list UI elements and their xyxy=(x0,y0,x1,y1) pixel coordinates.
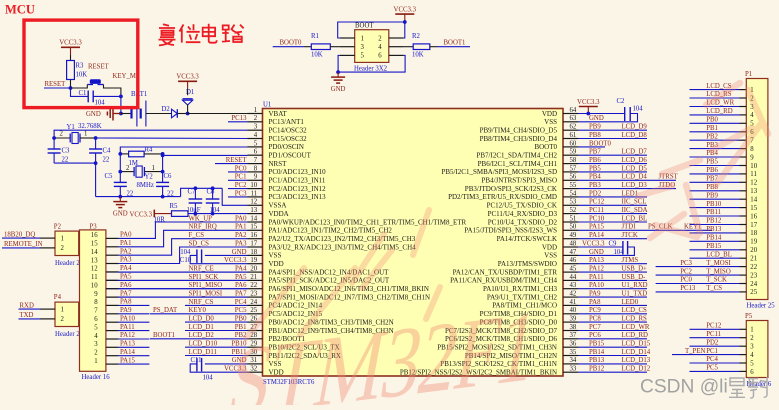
svg-text:22: 22 xyxy=(62,157,69,164)
wire pin 8 xyxy=(228,171,248,173)
svg-text:PC3/ADC123_IN13: PC3/ADC123_IN13 xyxy=(269,193,327,201)
svg-text:14: 14 xyxy=(750,197,757,204)
svg-text:PB7/I2C1_SDA/TIM4_CH2: PB7/I2C1_SDA/TIM4_CH2 xyxy=(476,152,557,160)
wire RXD xyxy=(19,308,41,310)
svg-text:VBAT: VBAT xyxy=(269,110,288,118)
svg-text:PA14: PA14 xyxy=(589,232,604,239)
svg-text:14: 14 xyxy=(91,249,98,256)
svg-text:LCD_CS: LCD_CS xyxy=(622,307,648,314)
wire PA10 end xyxy=(118,321,149,323)
svg-text:PD2: PD2 xyxy=(706,339,719,346)
wire pin 38 xyxy=(578,330,647,332)
wire pin 53 xyxy=(578,204,647,206)
svg-text:33: 33 xyxy=(570,366,577,373)
svg-text:PC11: PC11 xyxy=(706,331,721,338)
svg-text:RESET: RESET xyxy=(88,64,110,71)
svg-text:54: 54 xyxy=(570,190,577,197)
svg-text:PC2/ADC123_IN12: PC2/ADC123_IN12 xyxy=(269,185,327,193)
svg-text:PB2: PB2 xyxy=(706,133,718,140)
svg-text:PB11: PB11 xyxy=(706,209,721,216)
wire Y1 to pin 3 xyxy=(54,130,247,138)
crystal Y2 8MHz xyxy=(120,171,134,173)
svg-text:PA1/ADC123_IN1/TIM2_CH2/TIM5_C: PA1/ADC123_IN1/TIM2_CH2/TIM5_CH2 xyxy=(269,227,393,235)
svg-text:PB10: PB10 xyxy=(706,201,722,208)
svg-text:VDD: VDD xyxy=(542,110,557,118)
svg-text:PB5: PB5 xyxy=(589,165,601,172)
svg-text:BOOT0: BOOT0 xyxy=(534,143,557,151)
svg-text:T_CS: T_CS xyxy=(706,285,722,292)
svg-text:PD0/OSCIN: PD0/OSCIN xyxy=(269,143,304,151)
svg-text:24: 24 xyxy=(750,281,757,288)
svg-text:LED0: LED0 xyxy=(622,299,639,306)
wire PA0 stair xyxy=(118,222,247,238)
svg-text:Y2: Y2 xyxy=(145,174,154,181)
wire P1-1 xyxy=(690,89,740,91)
svg-text:10K: 10K xyxy=(412,51,424,58)
wire pin 9 xyxy=(228,179,248,181)
capacitor C4 xyxy=(95,138,97,149)
svg-text:PD2/TIM3_ETR/U5_RX/SDIO_CMD: PD2/TIM3_ETR/U5_RX/SDIO_CMD xyxy=(448,193,557,201)
svg-text:JTDI: JTDI xyxy=(622,224,637,231)
svg-text:RESET: RESET xyxy=(45,81,67,88)
svg-text:PC1/ADC123_IN11: PC1/ADC123_IN11 xyxy=(269,177,326,185)
wire PA7 to pin 23 xyxy=(118,296,247,298)
wire gnd to battery xyxy=(120,96,122,113)
svg-text:PC7: PC7 xyxy=(589,324,601,331)
svg-text:C2: C2 xyxy=(617,98,626,105)
svg-text:CSDN @li: CSDN @li xyxy=(640,377,728,398)
svg-text:PB5/I2C1_SMBA/SPI3_MOSI/I2S3_S: PB5/I2C1_SMBA/SPI3_MOSI/I2S3_SD xyxy=(441,168,557,176)
svg-text:VDD: VDD xyxy=(542,243,557,251)
wire pin 35 xyxy=(578,355,647,357)
wire P1-13 xyxy=(690,190,740,192)
svg-text:104: 104 xyxy=(614,249,625,256)
svg-text:LCD_D2: LCD_D2 xyxy=(189,332,215,339)
svg-text:9: 9 xyxy=(94,291,98,298)
svg-text:NRF_CE: NRF_CE xyxy=(189,266,214,273)
ground (battery) sideways xyxy=(113,113,121,115)
svg-text:LCD_D7: LCD_D7 xyxy=(622,149,648,156)
svg-text:104: 104 xyxy=(95,100,106,107)
svg-text:RXD: RXD xyxy=(20,302,34,309)
wire pin 30 xyxy=(185,355,248,357)
svg-text:SD_CS: SD_CS xyxy=(189,240,210,247)
svg-text:15: 15 xyxy=(250,224,257,231)
svg-text:PB4/JNTRST/SPI3_MISO: PB4/JNTRST/SPI3_MISO xyxy=(482,177,557,185)
svg-text:PA9: PA9 xyxy=(589,291,601,298)
svg-text:LCD_D0: LCD_D0 xyxy=(189,316,215,323)
svg-text:2: 2 xyxy=(750,335,754,342)
wire P1-21 xyxy=(690,257,740,259)
svg-text:14: 14 xyxy=(250,215,257,222)
capacitor C1 xyxy=(71,88,89,96)
svg-text:22: 22 xyxy=(103,157,110,164)
svg-text:C1: C1 xyxy=(79,90,87,97)
wire P1-12 xyxy=(690,181,740,183)
svg-text:PC8: PC8 xyxy=(589,316,601,323)
wire pin 55 xyxy=(578,188,676,190)
svg-text:11: 11 xyxy=(91,274,98,281)
svg-text:C11: C11 xyxy=(191,357,202,364)
svg-text:49: 49 xyxy=(570,232,577,239)
svg-text:64: 64 xyxy=(570,107,577,114)
wire pin 50 xyxy=(578,229,712,231)
svg-text:PA12: PA12 xyxy=(589,266,604,273)
svg-text:R1: R1 xyxy=(311,33,319,40)
svg-text:PC6: PC6 xyxy=(589,332,601,339)
svg-text:8MHz: 8MHz xyxy=(137,182,154,189)
svg-text:PB9/TIM4_CH4/SDIO_D5: PB9/TIM4_CH4/SDIO_D5 xyxy=(480,127,558,135)
svg-text:GND: GND xyxy=(232,249,247,256)
svg-text:53: 53 xyxy=(570,199,577,206)
svg-text:VCC3.3: VCC3.3 xyxy=(224,257,247,264)
wire pin 44 xyxy=(578,279,647,281)
capacitor C8 xyxy=(211,186,215,190)
svg-text:59: 59 xyxy=(570,149,577,156)
svg-text:VDDA: VDDA xyxy=(269,210,289,218)
capacitor C2 xyxy=(578,113,625,115)
svg-text:43: 43 xyxy=(570,282,577,289)
svg-text:7: 7 xyxy=(94,308,98,315)
capacitor C6 xyxy=(156,181,169,183)
wire pin 11 xyxy=(228,196,248,198)
wire pin 24 xyxy=(185,304,248,306)
wire P5-3 xyxy=(690,345,740,347)
svg-text:104: 104 xyxy=(180,249,191,256)
capacitor C9 xyxy=(578,246,623,248)
svg-text:PC1: PC1 xyxy=(235,174,247,181)
svg-text:T_PEN: T_PEN xyxy=(685,348,705,355)
wire Y1 to pin 4 xyxy=(96,137,248,140)
svg-text:41: 41 xyxy=(570,299,577,306)
wire P1-2 xyxy=(690,97,740,99)
wire PA9 end xyxy=(118,313,149,315)
svg-text:SPI1_MOSI: SPI1_MOSI xyxy=(189,291,223,298)
svg-text:3: 3 xyxy=(254,124,258,131)
svg-text:VCC3.3: VCC3.3 xyxy=(582,240,605,247)
svg-text:VCC3.3: VCC3.3 xyxy=(130,211,153,218)
wire pin 22 xyxy=(106,288,248,290)
svg-text:VSS: VSS xyxy=(544,252,557,260)
svg-text:GND: GND xyxy=(86,111,101,118)
wire PA8 end xyxy=(118,304,149,306)
node Y2 right top xyxy=(161,152,165,156)
svg-text:6: 6 xyxy=(94,316,98,323)
svg-text:18: 18 xyxy=(250,249,257,256)
watermark diagonal STM32F1 text xyxy=(206,288,558,410)
svg-text:VCC3.3: VCC3.3 xyxy=(59,40,82,47)
svg-text:PA11: PA11 xyxy=(589,274,604,281)
wire P1-25 xyxy=(656,291,740,293)
svg-text:37: 37 xyxy=(570,332,577,339)
wire P1-7 xyxy=(690,139,740,141)
svg-text:PC2: PC2 xyxy=(235,182,247,189)
svg-text:GND: GND xyxy=(331,86,346,93)
svg-text:13: 13 xyxy=(250,207,257,214)
wire P1-6 xyxy=(690,131,740,133)
wire pin 49 xyxy=(578,238,647,240)
wire pin 41 xyxy=(578,304,647,306)
svg-text:46: 46 xyxy=(570,257,577,264)
wire PA14 end xyxy=(118,355,149,357)
wire pin 58 xyxy=(578,163,647,165)
svg-text:C4: C4 xyxy=(103,148,112,155)
svg-text:20: 20 xyxy=(250,266,257,273)
svg-text:3: 3 xyxy=(361,44,365,51)
wire P1-8 xyxy=(690,148,740,150)
red label 复位电路 (reset circuit) drawn strokes xyxy=(159,24,244,46)
svg-text:PB9: PB9 xyxy=(706,192,718,199)
svg-text:1: 1 xyxy=(152,165,155,172)
capacitor C3 xyxy=(53,138,55,149)
wire pin 45 xyxy=(578,271,647,273)
svg-text:LCD_D8: LCD_D8 xyxy=(622,132,648,139)
svg-text:VSS: VSS xyxy=(269,252,282,260)
svg-text:PB6: PB6 xyxy=(589,157,601,164)
svg-text:5: 5 xyxy=(361,53,365,60)
svg-text:LCD_D12: LCD_D12 xyxy=(622,366,651,373)
wire P1-9 xyxy=(690,156,740,158)
svg-text:7: 7 xyxy=(254,157,258,164)
svg-text:USB_D-: USB_D- xyxy=(622,274,647,281)
svg-text:17: 17 xyxy=(250,240,257,247)
wire P1-10 xyxy=(690,165,740,167)
svg-text:PC12/U5_TX/SDIO_CK: PC12/U5_TX/SDIO_CK xyxy=(487,202,557,210)
svg-text:22: 22 xyxy=(250,282,257,289)
svg-text:PA2: PA2 xyxy=(235,232,247,239)
svg-text:PB13: PB13 xyxy=(589,357,605,364)
wire pin 37 xyxy=(578,338,647,340)
wire P1-18 xyxy=(690,232,740,234)
svg-text:15: 15 xyxy=(750,205,757,212)
wire P5-5 xyxy=(690,362,740,364)
svg-text:LCD_D9: LCD_D9 xyxy=(622,124,648,131)
svg-text:NRF_IRQ: NRF_IRQ xyxy=(189,224,217,231)
svg-text:PC12: PC12 xyxy=(706,323,722,330)
svg-text:D2: D2 xyxy=(162,106,171,113)
svg-text:10K: 10K xyxy=(311,51,323,58)
node Y1 right xyxy=(94,136,98,140)
svg-text:2: 2 xyxy=(254,115,258,122)
svg-text:U1_RXD: U1_RXD xyxy=(622,282,648,289)
wire PA1 stair xyxy=(118,230,247,247)
svg-text:4: 4 xyxy=(378,44,382,51)
svg-text:2: 2 xyxy=(61,316,65,323)
svg-text:8: 8 xyxy=(750,146,754,153)
svg-text:LCD_RS: LCD_RS xyxy=(622,316,648,323)
svg-text:2: 2 xyxy=(60,131,64,138)
svg-text:12: 12 xyxy=(750,180,757,187)
wire VSSA pin 12 xyxy=(222,188,247,205)
wire P1-15 xyxy=(690,207,740,209)
wire pin 59 xyxy=(578,154,647,156)
svg-text:22: 22 xyxy=(750,264,757,271)
svg-text:42: 42 xyxy=(570,291,577,298)
wire pin 25 xyxy=(150,313,248,315)
svg-text:PA15: PA15 xyxy=(589,224,604,231)
svg-text:LCD_D6: LCD_D6 xyxy=(622,157,648,164)
svg-text:PC14/OSC32: PC14/OSC32 xyxy=(269,127,308,135)
svg-text:PB13: PB13 xyxy=(706,226,722,233)
svg-text:19: 19 xyxy=(750,239,757,246)
svg-text:PB5: PB5 xyxy=(706,159,718,166)
svg-text:PB6/I2C1_SCL/TIM4_CH1: PB6/I2C1_SCL/TIM4_CH1 xyxy=(478,160,558,168)
svg-text:R3: R3 xyxy=(76,63,85,70)
node VBAT junction xyxy=(186,112,190,116)
svg-text:R2: R2 xyxy=(412,33,421,40)
svg-text:PA15: PA15 xyxy=(120,357,135,364)
svg-text:18B20_DQ: 18B20_DQ xyxy=(4,231,35,238)
svg-text:1: 1 xyxy=(750,327,753,334)
svg-text:Header 25: Header 25 xyxy=(747,303,776,310)
svg-text:6: 6 xyxy=(750,369,754,376)
svg-text:BOOT1: BOOT1 xyxy=(444,39,466,46)
node Y1 left xyxy=(52,136,56,140)
svg-text:PA1: PA1 xyxy=(120,240,131,247)
svg-text:13: 13 xyxy=(750,188,757,195)
wire P1-5 xyxy=(690,122,740,124)
capacitor C10 xyxy=(205,254,248,256)
svg-text:PB8: PB8 xyxy=(589,132,601,139)
svg-text:PC0: PC0 xyxy=(680,277,692,284)
svg-text:PC4: PC4 xyxy=(706,356,718,363)
svg-text:PB8/TIM4_CH3/SDIO_D4: PB8/TIM4_CH3/SDIO_D4 xyxy=(480,135,558,143)
svg-text:PA7: PA7 xyxy=(120,290,132,297)
svg-text:MCU: MCU xyxy=(5,3,35,17)
svg-text:C5: C5 xyxy=(105,173,114,180)
wire PA15 end xyxy=(118,363,149,365)
svg-text:PA8: PA8 xyxy=(589,299,601,306)
svg-text:1: 1 xyxy=(94,358,97,365)
svg-text:Header 2: Header 2 xyxy=(55,331,80,338)
node RESET junction xyxy=(69,86,73,90)
svg-text:PB9: PB9 xyxy=(589,124,601,131)
svg-text:2: 2 xyxy=(126,165,130,172)
svg-text:50: 50 xyxy=(570,224,577,231)
svg-text:PC4: PC4 xyxy=(235,299,247,306)
svg-text:PA3: PA3 xyxy=(120,257,132,264)
svg-text:PB4: PB4 xyxy=(589,174,601,181)
svg-text:58: 58 xyxy=(570,157,577,164)
wire pin 2 xyxy=(228,121,248,123)
ground (crystals) xyxy=(119,197,121,202)
svg-text:KEY0: KEY0 xyxy=(189,307,207,314)
svg-text:C6: C6 xyxy=(164,173,173,180)
wire C3/C4 gnd rail xyxy=(54,162,96,164)
svg-text:11: 11 xyxy=(750,171,757,178)
svg-text:PB0: PB0 xyxy=(235,316,247,323)
wire P1-24 xyxy=(656,283,740,285)
wire pin 20 xyxy=(106,271,248,273)
wire P5-6 xyxy=(690,370,740,372)
svg-text:VSSA: VSSA xyxy=(269,202,287,210)
svg-text:P1: P1 xyxy=(745,71,752,78)
svg-text:5: 5 xyxy=(94,324,98,331)
svg-text:10: 10 xyxy=(91,283,98,290)
wire P1-11 xyxy=(690,173,740,175)
svg-text:LCD_D13: LCD_D13 xyxy=(622,357,651,364)
wire pin 28 xyxy=(150,338,248,340)
wire pin 60 xyxy=(578,146,605,148)
svg-text:LCD_RD: LCD_RD xyxy=(706,108,733,115)
svg-text:VCC3.3: VCC3.3 xyxy=(577,99,600,106)
svg-text:VCC3.3: VCC3.3 xyxy=(394,7,417,14)
wire pin 23 xyxy=(106,296,248,298)
svg-text:6: 6 xyxy=(254,149,258,156)
svg-text:PA15/JTDI/SPI3_NSS/I2S3_WS: PA15/JTDI/SPI3_NSS/I2S3_WS xyxy=(464,227,557,235)
svg-text:LCD_D11: LCD_D11 xyxy=(189,349,217,356)
svg-text:PD1/OSCOUT: PD1/OSCOUT xyxy=(269,152,312,160)
svg-text:BOOT1: BOOT1 xyxy=(153,332,175,339)
svg-text:16: 16 xyxy=(91,232,98,239)
svg-text:PC10/U4_TX/SDIO_D2: PC10/U4_TX/SDIO_D2 xyxy=(488,218,558,226)
wire PA13 end xyxy=(118,346,149,348)
IC U1 STM32F103RCT6 body xyxy=(263,109,564,377)
svg-text:PA8: PA8 xyxy=(120,299,132,306)
svg-text:5: 5 xyxy=(750,360,754,367)
svg-text:PC0: PC0 xyxy=(235,165,247,172)
svg-text:38: 38 xyxy=(570,324,577,331)
svg-text:2: 2 xyxy=(61,245,65,252)
svg-text:19: 19 xyxy=(250,257,257,264)
wire pin 57 xyxy=(578,171,647,173)
svg-text:10: 10 xyxy=(750,163,757,170)
wire PA12 end xyxy=(118,338,149,340)
svg-text:PA5: PA5 xyxy=(120,274,132,281)
wire P5-1 xyxy=(690,328,740,330)
wire pin 27 xyxy=(185,330,248,332)
wire pin 7 xyxy=(215,163,248,165)
wire Y2 left to pin 5 xyxy=(120,147,247,182)
svg-text:JTCK: JTCK xyxy=(622,232,638,239)
svg-text:NRST: NRST xyxy=(269,160,288,168)
wire P1-22 xyxy=(656,266,740,268)
capacitor C5 xyxy=(114,181,127,183)
svg-text:9: 9 xyxy=(254,174,258,181)
svg-text:GND: GND xyxy=(589,249,604,256)
wire crystal gnd rail xyxy=(96,196,181,198)
svg-text:52: 52 xyxy=(570,207,577,214)
wire pin 61 xyxy=(578,138,647,140)
svg-text:25: 25 xyxy=(250,307,257,314)
svg-text:PA5: PA5 xyxy=(235,274,247,281)
svg-text:1: 1 xyxy=(61,306,64,313)
wire REMOTE_IN xyxy=(2,247,40,249)
svg-text:PA14/JTCK/SWCLK: PA14/JTCK/SWCLK xyxy=(497,235,557,243)
svg-text:R5: R5 xyxy=(170,203,179,210)
svg-text:104: 104 xyxy=(633,106,644,113)
svg-text:PC5: PC5 xyxy=(235,307,247,314)
svg-text:36: 36 xyxy=(570,341,577,348)
ground (BOOT) xyxy=(337,72,339,77)
svg-text:12: 12 xyxy=(91,266,98,273)
wire P1-16 xyxy=(690,215,740,217)
svg-text:61: 61 xyxy=(570,132,577,139)
svg-text:T_MISO: T_MISO xyxy=(706,268,731,275)
wire PA6 to pin 22 xyxy=(118,288,247,290)
wire pin 62 xyxy=(578,129,647,131)
wire pin 39 xyxy=(578,321,647,323)
svg-text:PB3/JTDO/SPI3_SCK/I2S3_CK: PB3/JTDO/SPI3_SCK/I2S3_CK xyxy=(465,185,557,193)
wire RESET net xyxy=(44,87,71,89)
svg-text:15: 15 xyxy=(91,241,98,248)
wire PA11 end xyxy=(118,330,149,332)
wire PA5 to pin 21 xyxy=(118,279,247,281)
svg-text:5: 5 xyxy=(254,140,258,147)
wire pin 46 xyxy=(578,263,647,265)
svg-text:PC3: PC3 xyxy=(235,190,247,197)
wire P5-4 xyxy=(672,354,740,356)
